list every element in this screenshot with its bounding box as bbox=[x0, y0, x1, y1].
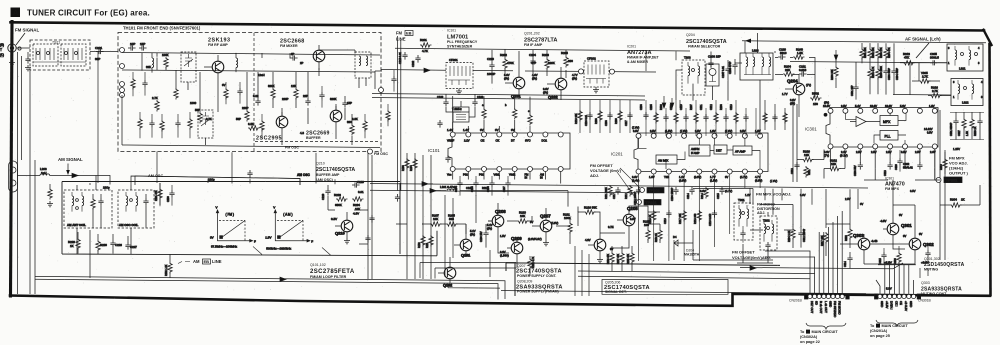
comb under IC201 verticals bbox=[639, 174, 761, 261]
svg-text:47K: 47K bbox=[904, 56, 909, 60]
svg-text:R217 10K: R217 10K bbox=[679, 213, 682, 224]
signal arrows into IC201 bbox=[664, 96, 680, 108]
section divider dashed horizontal bbox=[255, 141, 380, 143]
tall resistor R308 33K bbox=[834, 66, 838, 78]
svg-text:C233 470P: C233 470P bbox=[729, 61, 732, 74]
svg-text:Q208,209: Q208,209 bbox=[517, 280, 532, 284]
top border line bbox=[11, 22, 985, 30]
resistor R104 bbox=[174, 88, 178, 100]
resistor R320 bbox=[897, 252, 901, 264]
svg-text:3.0V: 3.0V bbox=[800, 193, 806, 197]
svg-text:Q302: Q302 bbox=[923, 242, 934, 247]
svg-text:0.01: 0.01 bbox=[358, 190, 364, 194]
svg-text:2.7K: 2.7K bbox=[922, 75, 928, 79]
svg-text:5.1V: 5.1V bbox=[487, 223, 493, 227]
svg-text:47P: 47P bbox=[531, 61, 536, 65]
svg-text:CE: CE bbox=[899, 301, 903, 305]
svg-text:FM/AM SELECTOR: FM/AM SELECTOR bbox=[688, 45, 721, 49]
AM graph axes bbox=[275, 210, 310, 241]
C221 cap bbox=[799, 71, 807, 76]
wire: det rail 2 bbox=[578, 271, 815, 274]
svg-text:(7V): (7V) bbox=[806, 83, 811, 87]
svg-text:CF201: CF201 bbox=[449, 58, 458, 62]
wire: B+ bus top centre bbox=[395, 48, 690, 51]
AM EB leader bbox=[178, 262, 190, 264]
CF202 internals bbox=[588, 65, 604, 75]
svg-text:2SC2995: 2SC2995 bbox=[256, 136, 282, 142]
svg-text:ADJ.: ADJ. bbox=[757, 211, 765, 215]
svg-text:C220: C220 bbox=[487, 57, 494, 61]
svg-text:2.7K: 2.7K bbox=[206, 117, 212, 121]
second row caps C303 C304 bbox=[868, 68, 872, 80]
svg-text:DET: DET bbox=[716, 149, 722, 153]
svg-text:( FM ): ( FM ) bbox=[226, 213, 235, 217]
right border bar bbox=[990, 44, 991, 295]
svg-text:( A M ): ( A M ) bbox=[283, 213, 292, 217]
transistor Q302 bbox=[909, 238, 921, 250]
svg-text:AM SIGNAL: AM SIGNAL bbox=[58, 157, 83, 162]
svg-text:820K: 820K bbox=[330, 97, 337, 101]
svg-text:C103: C103 bbox=[477, 95, 484, 99]
svg-text:10P: 10P bbox=[130, 42, 135, 46]
svg-text:C226 0.01: C226 0.01 bbox=[585, 114, 588, 126]
svg-text:565: 565 bbox=[449, 217, 454, 221]
svg-text:-0.4B: -0.4B bbox=[871, 239, 878, 243]
pull-up resistors a b c bbox=[482, 108, 486, 120]
FM graph dashed lines bbox=[219, 220, 245, 240]
IC101 bottom pin row bbox=[450, 167, 455, 172]
svg-text:2.5V: 2.5V bbox=[841, 104, 847, 108]
svg-text:1.7V: 1.7V bbox=[782, 92, 788, 96]
CN301B brace bbox=[876, 320, 918, 326]
svg-text:SYC: SYC bbox=[525, 139, 531, 143]
IC301 PLL block bbox=[880, 131, 898, 141]
wire: FM EB line vertical 1 bbox=[397, 36, 399, 191]
front box extra resistor 3 bbox=[224, 88, 228, 100]
arrows on link rails bbox=[422, 182, 428, 186]
svg-text:R206: R206 bbox=[542, 53, 549, 57]
svg-text:(B 2V): (B 2V) bbox=[840, 153, 848, 157]
svg-text:2.1V: 2.1V bbox=[841, 150, 847, 154]
svg-text:2.1V: 2.1V bbox=[464, 139, 470, 143]
svg-text:T201: T201 bbox=[738, 198, 745, 202]
svg-text:7.2MHz: 7.2MHz bbox=[452, 107, 462, 111]
transistor Q208 bbox=[492, 215, 504, 227]
section divider dashed vertical bbox=[253, 33, 255, 151]
transistor Q201 bbox=[513, 77, 525, 89]
svg-text:C206 1500P: C206 1500P bbox=[671, 187, 674, 201]
svg-text:C210 0.012: C210 0.012 bbox=[709, 213, 712, 226]
T202 dashed box bbox=[760, 216, 777, 250]
Q203 buffer components: cap bbox=[395, 194, 400, 202]
FM graph axes bbox=[218, 210, 253, 241]
svg-text:(0.3V): (0.3V) bbox=[694, 175, 701, 179]
wire: shield rail upper bbox=[372, 94, 645, 97]
svg-text:220P: 220P bbox=[242, 106, 249, 110]
wire: mid vertical comb a bbox=[406, 153, 408, 279]
svg-text:C312 2264?: C312 2264? bbox=[803, 228, 806, 242]
cap C111 bbox=[365, 235, 370, 243]
wire: under Q204 vertical bbox=[798, 103, 800, 117]
TH101 FM front end dashed box bbox=[118, 33, 381, 152]
svg-text:FM MPX VCO ADJ.: FM MPX VCO ADJ. bbox=[756, 192, 791, 197]
svg-text:0V: 0V bbox=[495, 128, 499, 132]
svg-text:5.3V: 5.3V bbox=[900, 104, 906, 108]
svg-text:R301 15K: R301 15K bbox=[864, 47, 867, 58]
svg-text:CN201B: CN201B bbox=[789, 299, 803, 303]
svg-text:C318: C318 bbox=[884, 170, 887, 176]
svg-text:R308 33K: R308 33K bbox=[831, 69, 834, 80]
svg-text:R211 220K: R211 220K bbox=[605, 187, 608, 199]
IC301 pin1 dot bbox=[824, 113, 827, 116]
svg-text:5.5V: 5.5V bbox=[886, 287, 892, 291]
cap 15P buffer bbox=[342, 100, 347, 108]
svg-text:C213: C213 bbox=[730, 104, 733, 110]
resistor 220P bbox=[245, 110, 249, 122]
wire: C201 column drop bbox=[97, 52, 99, 183]
IC201 sub-block AM/FM IF AMP bbox=[689, 145, 710, 156]
svg-text:Q208: Q208 bbox=[495, 209, 506, 214]
svg-text:PLL FREQUENCY: PLL FREQUENCY bbox=[447, 40, 478, 44]
svg-text:FM SIGNAL: FM SIGNAL bbox=[15, 28, 39, 33]
wire: IC301 feed verticals bbox=[793, 100, 797, 182]
resistor R234 10K bbox=[352, 197, 364, 201]
svg-text:0.6V: 0.6V bbox=[543, 87, 549, 91]
svg-text:TH101 FM FRONT END (SNVFE35760: TH101 FM FRONT END (SNVFE357601) bbox=[123, 26, 201, 31]
svg-text:1.25V: 1.25V bbox=[953, 147, 960, 151]
cap C227 bbox=[125, 242, 130, 250]
cap C214 bbox=[689, 187, 694, 195]
front box extra wires bbox=[133, 72, 365, 138]
svg-text:R210 10K: R210 10K bbox=[575, 113, 578, 124]
svg-text:FM OFFSET: FM OFFSET bbox=[732, 250, 755, 255]
cap C110 bbox=[369, 215, 374, 223]
osc column small parts bbox=[386, 110, 390, 122]
svg-text:C327: C327 bbox=[958, 130, 961, 136]
cap C315 bbox=[881, 252, 886, 260]
svg-text:(7.6V): (7.6V) bbox=[632, 126, 639, 130]
svg-text:4.3V: 4.3V bbox=[585, 238, 591, 242]
wire: front end bottom bus bbox=[122, 145, 380, 148]
front box extra cap bbox=[142, 80, 147, 88]
front box extra cap 2 bbox=[175, 120, 180, 128]
IC101 LM7001 box bbox=[448, 133, 570, 169]
wire: AM osc link bbox=[135, 176, 300, 185]
svg-text:10K: 10K bbox=[355, 207, 360, 211]
svg-text:& AM MIXER: & AM MIXER bbox=[627, 60, 648, 64]
Q210 bias wires bbox=[328, 185, 335, 210]
svg-text:C214: C214 bbox=[687, 193, 690, 199]
resistor R201 bbox=[420, 43, 432, 47]
diode D204 bbox=[674, 240, 682, 246]
svg-text:AF SIGNAL (Lch): AF SIGNAL (Lch) bbox=[905, 37, 941, 42]
resistor R211 bbox=[608, 185, 612, 197]
IC301 opamp triangle bbox=[856, 117, 866, 127]
svg-text:C303 600P: C303 600P bbox=[888, 68, 891, 80]
svg-text:R322: R322 bbox=[845, 235, 848, 241]
svg-text:MUTING CONT.: MUTING CONT. bbox=[921, 292, 947, 296]
svg-text:R320: R320 bbox=[894, 258, 897, 264]
selector wires bbox=[735, 33, 815, 135]
svg-text:2.5V: 2.5V bbox=[856, 150, 862, 154]
resistor R231 47K bbox=[158, 188, 162, 200]
cap C220 0.01 bbox=[352, 182, 360, 187]
front box input pins bbox=[120, 48, 125, 53]
wire: shield rail lower bbox=[372, 98, 645, 101]
svg-text:(4.7V): (4.7V) bbox=[740, 175, 747, 179]
svg-text:L322: L322 bbox=[962, 101, 969, 105]
svg-text:AM/FM: AM/FM bbox=[691, 147, 699, 151]
svg-text:C227: C227 bbox=[625, 120, 628, 126]
cap C227 bbox=[627, 112, 632, 120]
svg-text:POWER SUPPLY CONT.: POWER SUPPLY CONT. bbox=[517, 274, 557, 278]
wire: AM vertical bus bbox=[30, 70, 35, 294]
svg-text:0.6V: 0.6V bbox=[632, 175, 638, 179]
svg-text:R227 47K: R227 47K bbox=[618, 253, 620, 264]
main h line in box bbox=[122, 70, 375, 72]
cap C224 on AM bus bbox=[247, 170, 252, 178]
svg-text:0.5V: 0.5V bbox=[331, 217, 337, 221]
svg-text:Q202: Q202 bbox=[548, 95, 559, 100]
svg-text:12K: 12K bbox=[804, 153, 809, 157]
svg-text:ADJ.: ADJ. bbox=[590, 173, 599, 178]
svg-text:R207: R207 bbox=[690, 104, 693, 110]
AM box wires bbox=[77, 183, 160, 254]
AM ant coil windings bbox=[72, 196, 74, 206]
connector FM antenna bbox=[8, 44, 16, 52]
offset adj leader lines bbox=[617, 168, 640, 200]
svg-text:C230: C230 bbox=[167, 196, 170, 202]
wire: loop filter mesh verticals bbox=[445, 195, 490, 277]
svg-text:C218 1000P: C218 1000P bbox=[634, 191, 637, 205]
IF bias wires bbox=[492, 49, 566, 100]
svg-text:14.12V: 14.12V bbox=[924, 127, 933, 131]
misc bottom wires bbox=[35, 169, 940, 278]
svg-text:R213 1K: R213 1K bbox=[649, 214, 652, 224]
IC301 MPX block bbox=[880, 116, 898, 126]
svg-text:R111: R111 bbox=[426, 242, 429, 248]
svg-text:1000P: 1000P bbox=[487, 72, 495, 76]
svg-text:MAIN CIRCUIT: MAIN CIRCUIT bbox=[882, 324, 909, 328]
TP201 test point bbox=[644, 200, 661, 205]
svg-text:10.6V: 10.6V bbox=[870, 104, 877, 108]
FM graph curve bbox=[222, 221, 246, 238]
7S21 internal cell 1 bbox=[33, 44, 58, 66]
svg-text:220p: 220p bbox=[208, 178, 215, 182]
wire: bottom rail 2 bbox=[35, 279, 498, 299]
resistor R205 390 bbox=[564, 56, 568, 68]
svg-text:R304: R304 bbox=[950, 198, 957, 202]
svg-text:EB: EB bbox=[204, 259, 210, 264]
AM signal leader bbox=[67, 164, 69, 173]
svg-text:+5.5V: +5.5V bbox=[885, 301, 889, 309]
top-right corner diagonal bbox=[984, 30, 992, 45]
cap C314 bbox=[847, 255, 852, 263]
svg-text:Q101,102: Q101,102 bbox=[310, 263, 326, 267]
svg-text:150: 150 bbox=[813, 102, 818, 106]
svg-text:R303 27K: R303 27K bbox=[880, 47, 883, 58]
wire: B+ bus inside front end box bbox=[122, 53, 380, 56]
svg-text:C102: C102 bbox=[437, 95, 444, 99]
svg-text:Q210: Q210 bbox=[316, 162, 325, 166]
svg-text:OUTPUT ): OUTPUT ) bbox=[949, 171, 969, 176]
svg-text:10.6V: 10.6V bbox=[885, 104, 892, 108]
svg-text:R ch OUT: R ch OUT bbox=[819, 301, 823, 314]
resistor R502 150 bbox=[810, 96, 822, 100]
resistor R324 bbox=[783, 112, 787, 124]
svg-text:on page 25: on page 25 bbox=[870, 334, 890, 338]
cap C210 0.012 bbox=[712, 210, 717, 218]
svg-text:R304 47K: R304 47K bbox=[888, 47, 891, 58]
svg-text:4.8: 4.8 bbox=[300, 131, 304, 135]
svg-text:C205: C205 bbox=[650, 104, 653, 110]
resistor R227 bbox=[48, 188, 52, 200]
svg-text:POWER SUPPLY(FM/AM): POWER SUPPLY(FM/AM) bbox=[517, 289, 559, 293]
svg-text:0.018: 0.018 bbox=[799, 68, 807, 72]
svg-text:18P: 18P bbox=[140, 42, 145, 46]
resistor R104 bbox=[413, 158, 417, 170]
svg-text:(CN302A): (CN302A) bbox=[800, 335, 818, 339]
svg-text:T3B: T3B bbox=[664, 175, 669, 179]
R240 resistor bbox=[793, 55, 805, 59]
svg-text:A: A bbox=[13, 8, 19, 17]
wire: IF signal path bbox=[381, 70, 656, 73]
cap C230 bbox=[169, 190, 174, 198]
resistor R219 bbox=[658, 229, 662, 241]
svg-text:Q102: Q102 bbox=[443, 284, 452, 288]
svg-text:P02: P02 bbox=[463, 173, 468, 177]
front box extra resistor 5 bbox=[363, 120, 367, 132]
svg-text:(6): (6) bbox=[0, 43, 4, 47]
cap C219 bbox=[666, 210, 671, 218]
svg-text:R104: R104 bbox=[410, 165, 413, 171]
transistor 2SK193 bbox=[212, 61, 224, 73]
svg-text:FM: FM bbox=[396, 31, 403, 36]
svg-text:Q204: Q204 bbox=[787, 79, 798, 84]
wire: muting rail bbox=[740, 263, 903, 269]
svg-text:0V: 0V bbox=[899, 213, 902, 217]
svg-text:0V: 0V bbox=[480, 128, 484, 132]
svg-text:C215: C215 bbox=[717, 193, 720, 199]
svg-text:1.4V: 1.4V bbox=[447, 128, 453, 132]
cap C225 bbox=[110, 240, 115, 248]
svg-text:R218 390: R218 390 bbox=[694, 213, 697, 224]
svg-text:SD: SD bbox=[815, 301, 819, 305]
svg-text:C207 0.01: C207 0.01 bbox=[721, 65, 725, 78]
wires for extra right details bbox=[884, 150, 945, 266]
svg-text:C201: C201 bbox=[95, 46, 103, 50]
svg-text:3.5V: 3.5V bbox=[633, 129, 639, 133]
resistor R110 bbox=[421, 235, 425, 247]
svg-text:C210: C210 bbox=[680, 104, 683, 110]
svg-text:0V: 0V bbox=[725, 175, 728, 179]
L324 coil windings bbox=[746, 57, 748, 67]
svg-text:R233: R233 bbox=[334, 193, 341, 197]
svg-text:R309 150K: R309 150K bbox=[880, 66, 883, 78]
svg-text:EB: EB bbox=[406, 31, 412, 36]
coil L101 bbox=[152, 58, 154, 68]
svg-text:FM OSC: FM OSC bbox=[285, 146, 299, 150]
resistor R319 bbox=[943, 158, 947, 170]
wire: mid vertical comb b bbox=[414, 153, 416, 279]
wire: front box left feed bbox=[16, 48, 118, 52]
svg-text:1.5K: 1.5K bbox=[797, 51, 803, 55]
svg-text:3.5V: 3.5V bbox=[740, 129, 746, 133]
wire: bottom rail 1 bbox=[35, 276, 505, 299]
CF201 internals bbox=[450, 66, 470, 76]
svg-text:C100 25V: C100 25V bbox=[480, 231, 483, 242]
svg-text:820K: 820K bbox=[268, 84, 275, 88]
IC101 bottom stubs bbox=[453, 172, 561, 184]
transistor Q204 bbox=[793, 83, 805, 95]
resistor R212 bbox=[628, 185, 632, 197]
right comb base bbox=[950, 113, 984, 140]
svg-text:0.5V: 0.5V bbox=[901, 150, 907, 154]
svg-text:R219 1K: R219 1K bbox=[656, 233, 658, 242]
discriminator cap unit bbox=[706, 64, 719, 86]
svg-text:+B 5.5V: +B 5.5V bbox=[904, 301, 908, 311]
svg-text:C217: C217 bbox=[613, 193, 616, 199]
capacitor C201 bbox=[96, 49, 104, 54]
svg-text:VREF: VREF bbox=[447, 139, 455, 143]
svg-text:0V: 0V bbox=[222, 83, 226, 87]
cap C233 470P bbox=[732, 62, 737, 70]
left side wires bbox=[797, 149, 845, 179]
svg-text:R232 1.2K: R232 1.2K bbox=[165, 264, 168, 276]
ground stub below connector bbox=[11, 52, 13, 60]
svg-text:15P: 15P bbox=[347, 101, 352, 105]
svg-text:0V: 0V bbox=[919, 232, 922, 236]
CN301B pin circles bbox=[875, 294, 921, 299]
svg-text:C212: C212 bbox=[710, 104, 713, 110]
cap C316 bbox=[925, 250, 930, 258]
bottom border line bbox=[10, 294, 990, 306]
svg-text:C301 18P: C301 18P bbox=[851, 85, 854, 96]
AM OSC COIL dashed box bbox=[118, 190, 154, 228]
cap 22P bbox=[305, 98, 310, 106]
transistor Q207 bbox=[540, 220, 552, 232]
svg-text:MPX: MPX bbox=[883, 120, 891, 124]
svg-text:FM MPX: FM MPX bbox=[885, 187, 900, 191]
resistor R217 10K bbox=[682, 210, 686, 222]
resistor R210 10K bbox=[578, 110, 582, 122]
wire: link rail B bbox=[370, 190, 640, 193]
svg-text:1K: 1K bbox=[961, 198, 965, 202]
svg-text:820K: 820K bbox=[548, 61, 555, 65]
cap C220 1000P bbox=[489, 62, 494, 70]
front box extra cap 4 bbox=[319, 92, 324, 100]
svg-text:(4.9V): (4.9V) bbox=[551, 221, 558, 225]
svg-text:R205: R205 bbox=[561, 51, 568, 55]
svg-text:C314: C314 bbox=[844, 261, 847, 267]
cap C229 bbox=[325, 188, 330, 196]
wire: left vertical bus 1 bbox=[17, 52, 19, 294]
svg-text:2.5V: 2.5V bbox=[871, 150, 877, 154]
svg-text:470K: 470K bbox=[507, 61, 514, 65]
cap C204 47P bbox=[530, 58, 535, 66]
cap C216 bbox=[402, 52, 407, 60]
svg-text:1.5V: 1.5V bbox=[500, 234, 506, 238]
arrow on det rail 2 bbox=[750, 266, 756, 270]
svg-text:AM OSC: AM OSC bbox=[297, 173, 310, 177]
svg-text:TP201: TP201 bbox=[645, 200, 656, 205]
svg-text:CK: CK bbox=[496, 139, 500, 143]
svg-text:Q303: Q303 bbox=[921, 281, 930, 285]
R311 resistor vertical bbox=[804, 166, 808, 178]
extra small parts front box lower bbox=[138, 118, 142, 130]
resistor R213 bbox=[652, 210, 656, 222]
AM tuning graph bbox=[265, 206, 331, 256]
